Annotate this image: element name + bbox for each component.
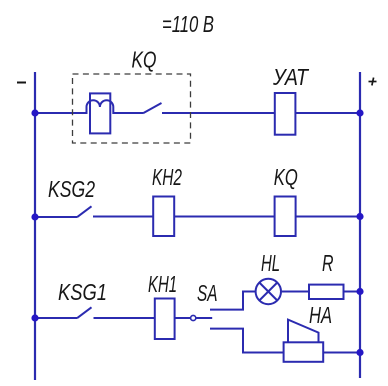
svg-text:KQ: KQ — [132, 47, 157, 73]
svg-text:R: R — [322, 250, 334, 276]
svg-text:KH2: KH2 — [152, 164, 182, 190]
svg-text:KSG2: KSG2 — [48, 176, 95, 202]
svg-text:УАТ: УАТ — [272, 64, 310, 90]
svg-text:=110 В: =110 В — [162, 11, 214, 37]
svg-text:KSG1: KSG1 — [58, 279, 107, 305]
svg-text:SA: SA — [197, 280, 218, 306]
svg-text:HL: HL — [261, 250, 280, 276]
svg-text:KH1: KH1 — [148, 271, 177, 297]
svg-text:KQ: KQ — [274, 164, 298, 190]
svg-text:HA: HA — [309, 302, 332, 328]
